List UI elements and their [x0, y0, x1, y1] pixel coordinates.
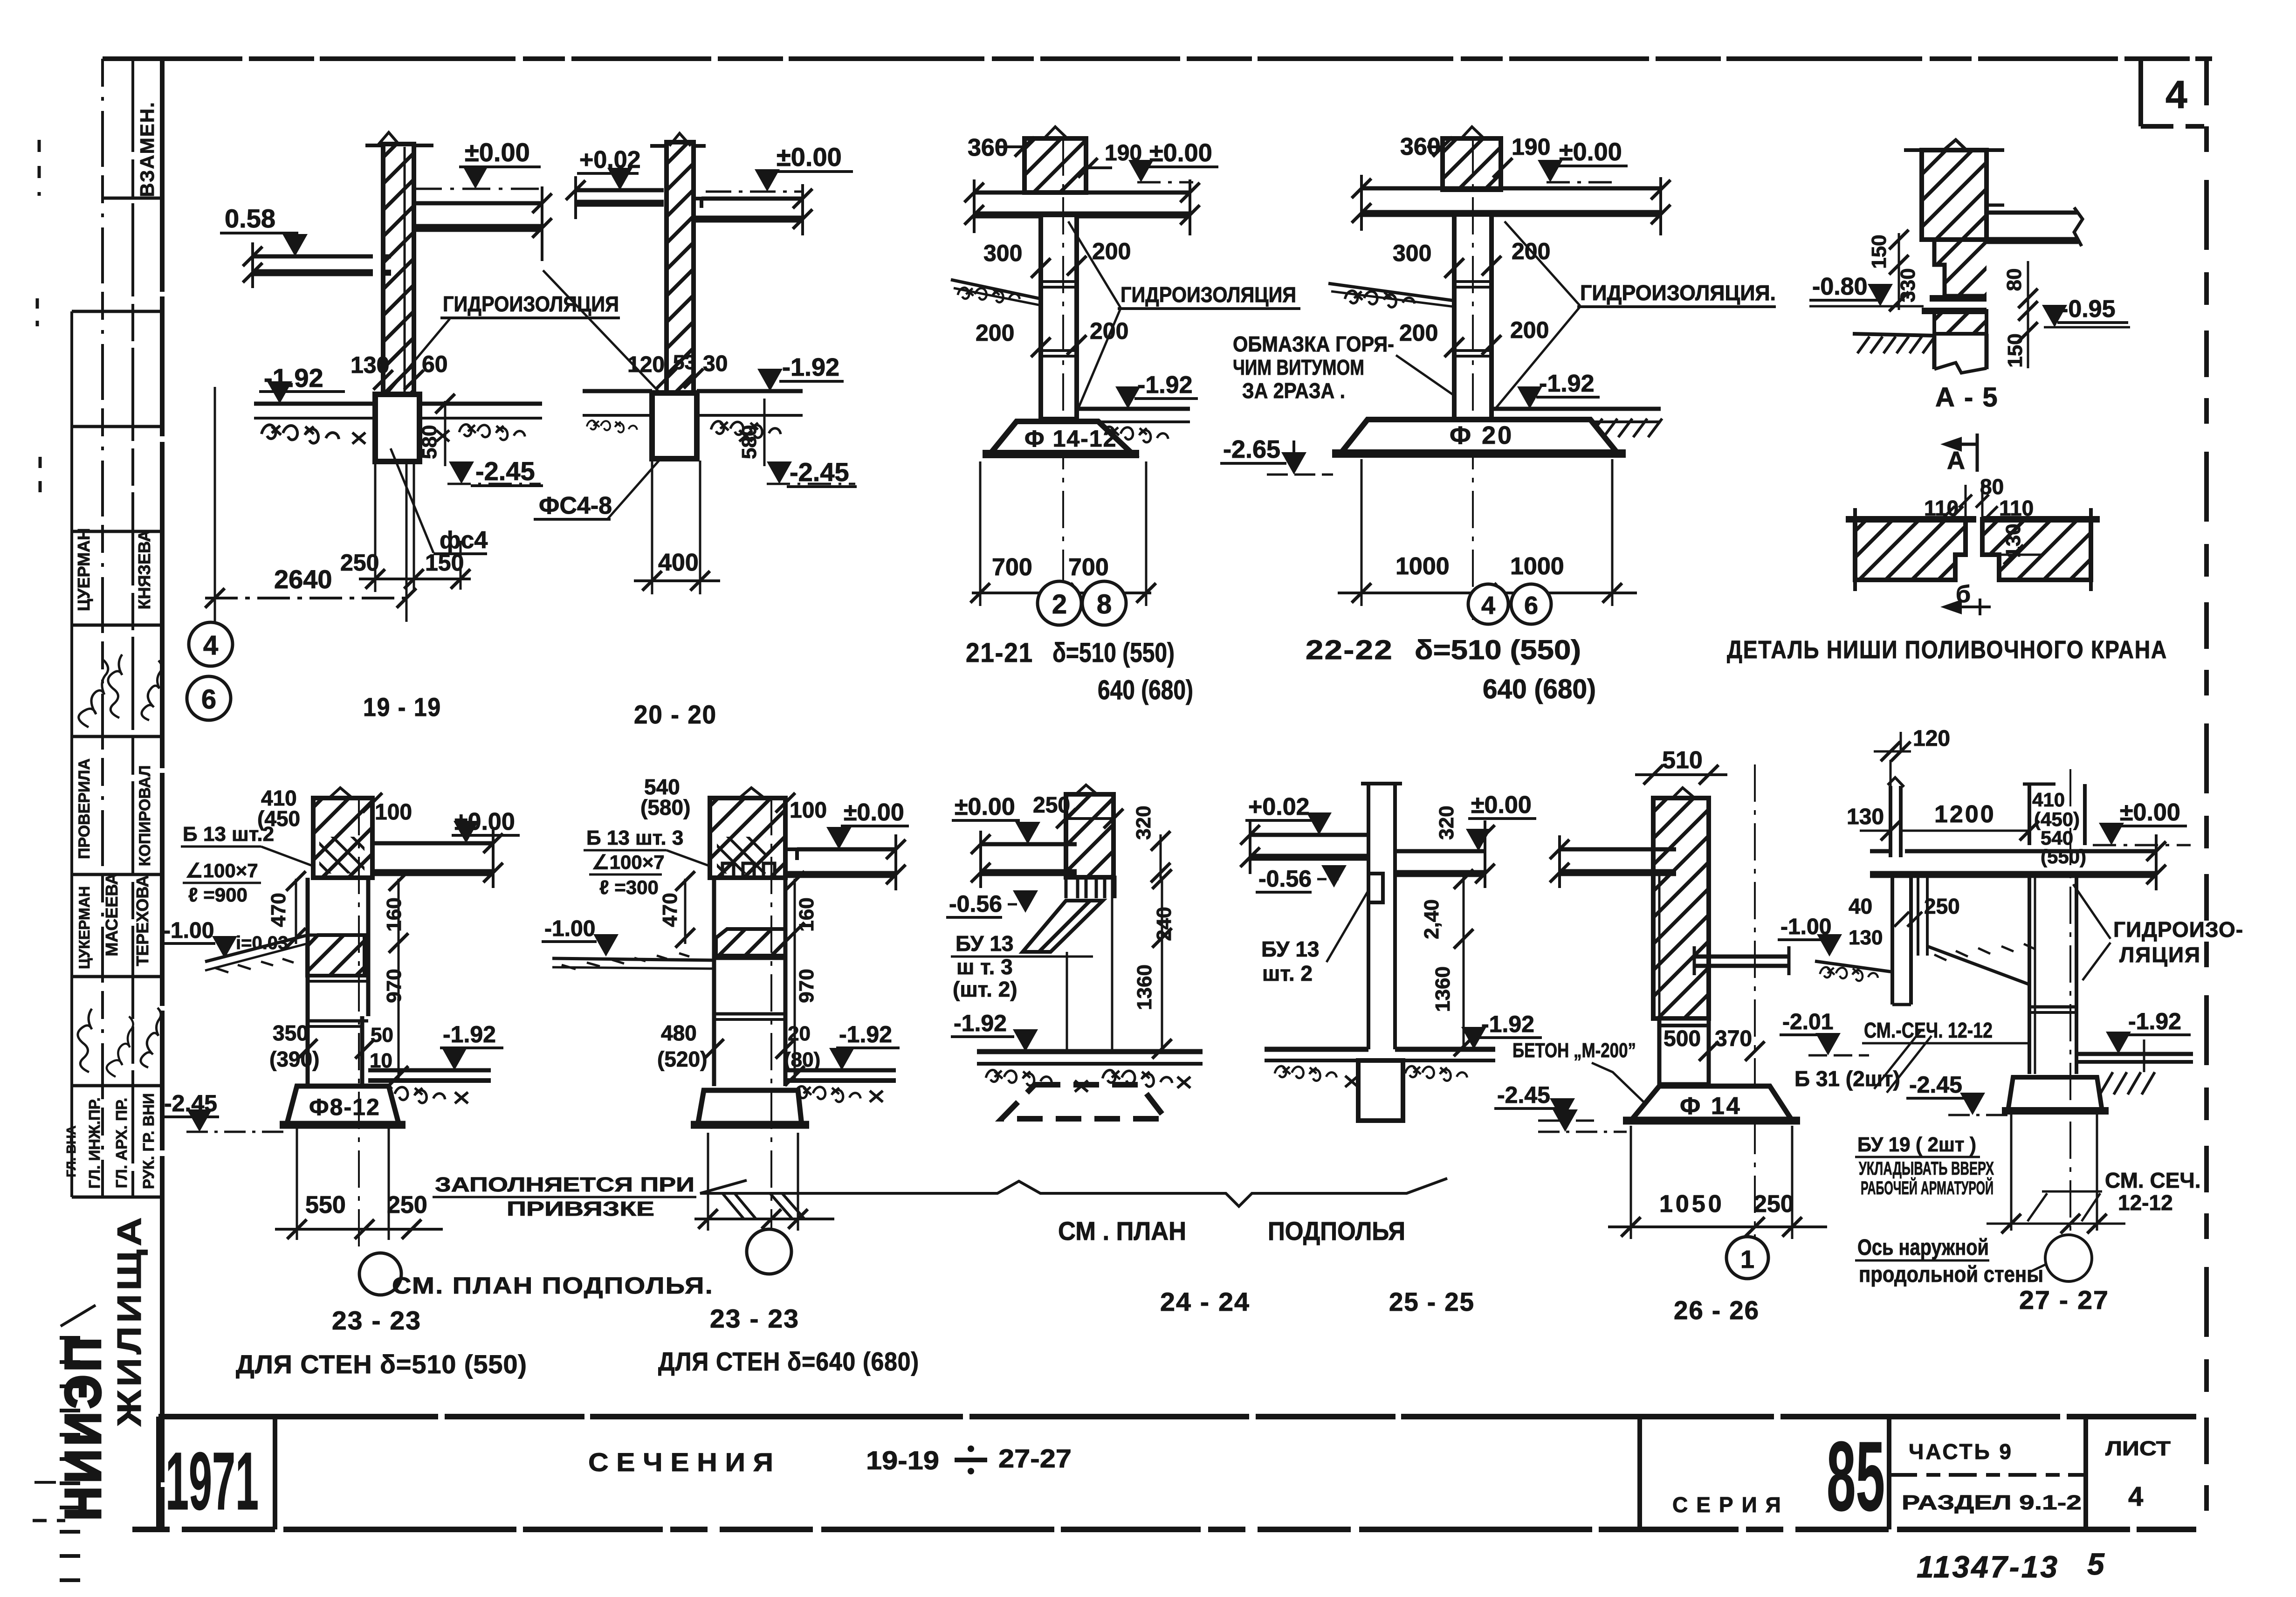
axis circle (27-27): [2045, 1235, 2092, 1281]
svg-text:-1.92: -1.92: [839, 1021, 892, 1047]
title SERIYA box: [1637, 1417, 1642, 1529]
svg-text:470: 470: [267, 893, 290, 927]
svg-text:ФС4-8: ФС4-8: [539, 492, 612, 519]
svg-text:МАСЕЕВА: МАСЕЕВА: [102, 873, 121, 956]
section 20-20 left slab: [576, 188, 664, 193]
right floor 27-27: [2076, 1052, 2193, 1056]
main wall 27-27 above slab: [2028, 784, 2031, 845]
svg-text:60: 60: [422, 351, 448, 377]
svg-text:Б 13 шт. 3: Б 13 шт. 3: [586, 826, 683, 849]
foundation wall 22-22: [1454, 214, 1492, 420]
svg-text:110: 110: [1999, 496, 2034, 520]
axis circle 2: [1038, 581, 1081, 625]
title LIST box: [2083, 1417, 2088, 1529]
svg-text:∠100×7: ∠100×7: [592, 851, 665, 873]
leader FS4-8 to 20-20 footing: [607, 453, 666, 519]
svg-text:-0.56: -0.56: [1258, 866, 1312, 892]
dashed footing 24-24: [1002, 1085, 1166, 1119]
paper edge dashes: [38, 140, 41, 196]
svg-text:ВЗАМЕН.: ВЗАМЕН.: [136, 101, 158, 197]
svg-text:-2.45: -2.45: [1909, 1072, 1962, 1098]
slabs 21-21: [974, 191, 1190, 195]
svg-text:СМ. ПЛАН ПОДПОЛЬЯ.: СМ. ПЛАН ПОДПОЛЬЯ.: [392, 1273, 714, 1299]
svg-text:-1.00: -1.00: [544, 916, 595, 941]
svg-text:50: 50: [371, 1024, 393, 1046]
svg-text:ℓ =300: ℓ =300: [599, 876, 659, 898]
svg-text:640 (680): 640 (680): [1098, 675, 1193, 705]
svg-text:-2.65: -2.65: [1223, 435, 1280, 463]
axis 27-27: [2069, 769, 2071, 1235]
svg-text:1360: 1360: [1133, 964, 1156, 1010]
svg-text:80: 80: [1980, 475, 2004, 499]
svg-text:200: 200: [976, 320, 1014, 346]
svg-text:-1.92: -1.92: [2128, 1008, 2181, 1034]
svg-text:160: 160: [383, 897, 406, 931]
svg-text:580: 580: [418, 425, 441, 459]
svg-text:ЛИСТ: ЛИСТ: [2105, 1437, 2171, 1460]
division sign: [955, 1458, 987, 1462]
axis circle (23a): [359, 1253, 401, 1295]
section 20-20 right slab: [701, 197, 803, 201]
svg-text:19 - 19: 19 - 19: [363, 692, 441, 722]
svg-text:ЦУЕРМАН: ЦУЕРМАН: [74, 528, 93, 611]
svg-text:200: 200: [1510, 317, 1549, 343]
svg-text:1: 1: [1740, 1246, 1754, 1273]
svg-text:21-21: 21-21: [966, 638, 1033, 668]
svg-text:1971: 1971: [165, 1436, 259, 1527]
svg-text:300: 300: [983, 240, 1022, 266]
svg-text:480: 480: [661, 1021, 697, 1045]
svg-text:120: 120: [1913, 726, 1950, 751]
svg-text:А: А: [1947, 447, 1965, 475]
svg-text:-1.92: -1.92: [1137, 372, 1193, 399]
svg-text:250: 250: [1924, 894, 1960, 918]
leader to 19-19 wall base: [387, 319, 450, 394]
svg-text:130: 130: [351, 352, 389, 378]
svg-text:(580): (580): [640, 795, 690, 819]
svg-text:СМ. СЕЧ.: СМ. СЕЧ.: [2105, 1168, 2201, 1192]
svg-text:КОПИРОВАЛ: КОПИРОВАЛ: [136, 765, 154, 866]
svg-text:ЗА 2РАЗА .: ЗА 2РАЗА .: [1242, 379, 1345, 403]
svg-text:ПРОВЕРИЛА: ПРОВЕРИЛА: [76, 758, 93, 859]
sidebar column line C: [131, 59, 134, 1197]
svg-text:4: 4: [2165, 73, 2187, 117]
ground left 22-22: [1328, 283, 1454, 301]
detail A-5 dim verticals: [1898, 233, 1900, 310]
svg-text:δ=510 (550): δ=510 (550): [1052, 638, 1175, 668]
leader beton: [1592, 1063, 1652, 1110]
title CHAST box: [1887, 1417, 1891, 1529]
svg-text:510: 510: [1662, 747, 1703, 774]
svg-text:ПРИВЯЗКЕ: ПРИВЯЗКЕ: [507, 1198, 654, 1220]
svg-text:ЗАПОЛНЯЕТСЯ ПРИ: ЗАПОЛНЯЕТСЯ ПРИ: [435, 1173, 694, 1196]
svg-text:СМ . ПЛАН: СМ . ПЛАН: [1058, 1216, 1186, 1246]
svg-text:2640: 2640: [274, 564, 332, 594]
svg-text:±0.00: ±0.00: [777, 142, 842, 172]
axis 23a: [358, 798, 360, 1252]
foundation block FS4: [375, 394, 419, 461]
svg-text:РУК. ГР. ВНИ: РУК. ГР. ВНИ: [140, 1093, 157, 1189]
axis circle 6 (22-22): [1511, 584, 1551, 624]
svg-text:5: 5: [2087, 1547, 2105, 1581]
piers below slab 27-27: [1890, 878, 1894, 1005]
basement floor 23a: [368, 1068, 491, 1073]
foundation block 20-20: [652, 393, 697, 459]
sheet right border: [2204, 59, 2209, 1529]
svg-text:-1.92: -1.92: [443, 1021, 496, 1047]
svg-text:С Е Ч Е Н И Я: С Е Ч Е Н И Я: [588, 1447, 773, 1477]
footing F8-12: [287, 1086, 399, 1125]
svg-text:40: 40: [1849, 894, 1872, 918]
basement floor 23b: [785, 1068, 896, 1073]
svg-text:(390): (390): [269, 1047, 319, 1071]
ground left 23b: [552, 958, 714, 960]
svg-text:200: 200: [1399, 320, 1438, 346]
svg-text:±0.00: ±0.00: [1559, 138, 1622, 166]
svg-text:23 - 23: 23 - 23: [710, 1304, 799, 1333]
section 22-22 brick wall: [1443, 138, 1501, 190]
axis 23b: [770, 798, 772, 1229]
slab 27-27: [1870, 849, 1890, 854]
axis 22-22: [1472, 138, 1474, 620]
svg-text:ГИДРОИЗО-: ГИДРОИЗО-: [2113, 917, 2243, 942]
leader fs4 to block: [391, 448, 433, 553]
ground 27-27: [1815, 961, 1892, 972]
svg-text:шт. 2: шт. 2: [1262, 961, 1313, 985]
svg-text:РАБОЧЕЙ АРМАТУРОЙ: РАБОЧЕЙ АРМАТУРОЙ: [1861, 1177, 1994, 1198]
svg-text:(80): (80): [784, 1048, 820, 1071]
axis circle (23b): [747, 1229, 791, 1274]
footing block 25-25: [1358, 1060, 1403, 1121]
axis extension line (19-19 left): [214, 387, 216, 622]
svg-text:12-12: 12-12: [2118, 1191, 2173, 1215]
section 26-26 wall: [1653, 798, 1709, 1019]
leader to 20-20 wall base: [543, 270, 661, 394]
svg-text:150: 150: [425, 550, 464, 576]
section 25-25 pier above slab: [1367, 784, 1370, 846]
section 20-20 wall: [667, 142, 694, 393]
main wall 27-27 below slab: [2028, 878, 2031, 1074]
ground left 23a: [205, 935, 308, 962]
axis circle 4 (22-22): [1468, 584, 1508, 624]
foundation wall 23b: [712, 878, 716, 1086]
svg-text:±0.00: ±0.00: [1149, 139, 1212, 167]
sidebar row separators: [103, 197, 162, 200]
sidebar signatures row1: [79, 660, 108, 727]
svg-text:410: 410: [2032, 789, 2065, 811]
section 19-19 left slab: [253, 255, 373, 259]
svg-text:-0.80: -0.80: [1812, 273, 1868, 300]
svg-text:1000: 1000: [1510, 553, 1564, 580]
svg-text:1000: 1000: [1395, 553, 1450, 580]
thin outer pier 27-27: [1889, 786, 1892, 857]
svg-text:±0.00: ±0.00: [2120, 799, 2180, 826]
svg-text:-2.01: -2.01: [1782, 1010, 1833, 1034]
svg-text:БУ 13: БУ 13: [956, 931, 1013, 956]
hatched block 23a: [307, 935, 364, 976]
svg-text:970: 970: [795, 969, 818, 1003]
title block 1971 box: [156, 1417, 161, 1529]
foundation wall 21-21: [1041, 215, 1077, 419]
sidebar column line A: [70, 311, 73, 1197]
svg-text:ДЛЯ СТЕН δ=510 (550): ДЛЯ СТЕН δ=510 (550): [236, 1349, 527, 1379]
notch BU13 (25-25): [1368, 874, 1383, 902]
axis circle 8: [1082, 581, 1126, 625]
svg-text:-1.92: -1.92: [1481, 1011, 1534, 1037]
right floor 22-22: [1492, 407, 1661, 411]
svg-text:Б 13 шт.2: Б 13 шт.2: [183, 823, 274, 846]
left slab 24-24: [981, 842, 1077, 847]
svg-text:Б 31 (2шт): Б 31 (2шт): [1794, 1067, 1900, 1091]
section 20-20 wall top break: [669, 133, 691, 146]
svg-text:(550): (550): [2041, 846, 2086, 867]
svg-text:Ф 20: Ф 20: [1450, 421, 1513, 449]
section 23-23b brick wall: [710, 798, 785, 878]
hatched block 23b: [716, 929, 785, 956]
svg-text:1050: 1050: [1659, 1191, 1725, 1218]
svg-text:26 - 26: 26 - 26: [1674, 1295, 1760, 1325]
niche plan right wall: [1982, 519, 2091, 580]
svg-text:24 - 24: 24 - 24: [1160, 1287, 1250, 1316]
svg-text:700: 700: [992, 554, 1032, 581]
basement floor 24-24: [977, 1049, 1203, 1054]
sidebar column line B: [101, 59, 104, 1197]
svg-text:ДЕТАЛЬ НИШИ ПОЛИВОЧНОГО КРА: ДЕТАЛЬ НИШИ ПОЛИВОЧНОГО КРАНА: [1727, 636, 2167, 664]
svg-text:ГЛ. ВНА: ГЛ. ВНА: [64, 1125, 78, 1177]
svg-text:370: 370: [1715, 1026, 1752, 1051]
svg-text:-2.45: -2.45: [1497, 1082, 1550, 1108]
leader BU13 to band: [951, 956, 1093, 958]
svg-text:-0.56: -0.56: [949, 891, 1002, 917]
svg-text:-1.92: -1.92: [782, 353, 839, 381]
svg-text:РАЗДЕЛ 9.1-2: РАЗДЕЛ 9.1-2: [1902, 1491, 2082, 1514]
svg-text:0.58: 0.58: [225, 204, 275, 233]
svg-text:ш т. 3: ш т. 3: [956, 955, 1013, 979]
detail A-5 hatched strip: [1934, 311, 1987, 334]
svg-text:ТЕРЕХОВА: ТЕРЕХОВА: [133, 875, 152, 966]
svg-text:БЕТОН „М-200”: БЕТОН „М-200”: [1512, 1039, 1636, 1062]
svg-text:ЧИМ ВИТУМОМ: ЧИМ ВИТУМОМ: [1233, 355, 1364, 379]
svg-text:±0.00: ±0.00: [955, 793, 1015, 820]
svg-text:i=0.03: i=0.03: [236, 933, 288, 953]
svg-text:Ф8-12: Ф8-12: [309, 1094, 380, 1120]
svg-text:330: 330: [1897, 268, 1919, 302]
svg-text:640 (680): 640 (680): [1483, 674, 1596, 704]
svg-text:ГИДРОИЗОЛЯЦИЯ: ГИДРОИЗОЛЯЦИЯ: [1121, 282, 1296, 307]
svg-text:22-22: 22-22: [1306, 635, 1393, 665]
svg-text:400: 400: [658, 549, 699, 576]
leader obmazka: [1396, 355, 1455, 396]
svg-text:550: 550: [305, 1191, 346, 1218]
footing 23b: [698, 1090, 802, 1125]
svg-text:100: 100: [375, 800, 412, 825]
svg-text:19-19: 19-19: [866, 1446, 939, 1475]
title block top line: [158, 1414, 2196, 1419]
footing F20: [1340, 420, 1618, 454]
svg-text:-1.92: -1.92: [954, 1010, 1007, 1036]
level 0.00 (20-20): [706, 191, 803, 193]
svg-text:±0.00: ±0.00: [844, 799, 904, 826]
svg-text:-1.92: -1.92: [1539, 370, 1595, 397]
svg-text:А - 5: А - 5: [1935, 382, 1999, 413]
pier below slab 25-25: [1367, 846, 1370, 874]
svg-text:(шт. 2): (шт. 2): [953, 977, 1017, 1001]
svg-text:ℓ =900: ℓ =900: [188, 884, 247, 906]
svg-text:500: 500: [1664, 1026, 1701, 1051]
ground left 21-21: [951, 280, 1041, 299]
axis 21-21: [1062, 138, 1064, 620]
level -2.45 mark (26-26): [1553, 1109, 1578, 1132]
footing F14-12: [990, 421, 1133, 454]
detail A-5 shelf lines: [1930, 295, 1987, 302]
svg-text:продольной стены: продольной стены: [1859, 1262, 2043, 1287]
ground texture 19-19: [261, 425, 339, 443]
basement floor 19-19: [254, 402, 375, 406]
svg-text:150: 150: [2004, 333, 2027, 367]
svg-text:470: 470: [659, 893, 681, 927]
right slab 23b: [797, 847, 896, 852]
svg-text:700: 700: [1068, 554, 1109, 581]
svg-text:БУ 13: БУ 13: [1261, 937, 1319, 961]
svg-text:4: 4: [2128, 1481, 2143, 1512]
detail A-5 wall upper: [1922, 150, 1987, 240]
svg-text:(520): (520): [657, 1047, 707, 1071]
section 19-19 wall top break: [378, 132, 400, 145]
svg-text:250: 250: [1753, 1191, 1794, 1218]
sidebar hatch dashes: [60, 1336, 80, 1340]
svg-text:ДЛЯ СТЕН δ=640 (680): ДЛЯ СТЕН δ=640 (680): [658, 1347, 919, 1376]
svg-text:11347-13: 11347-13: [1917, 1549, 2059, 1584]
svg-text:200: 200: [1090, 318, 1128, 344]
projection lines 24-24: [1066, 952, 1068, 1052]
svg-text:Ф 14-12: Ф 14-12: [1024, 426, 1117, 452]
footing F14: [1631, 1086, 1792, 1121]
detail A-5 niche lower hatch: [1934, 240, 1987, 296]
anchor teeth 23b: [722, 863, 775, 876]
svg-text:250: 250: [340, 550, 379, 576]
svg-text:320: 320: [1132, 805, 1155, 840]
left slab 25-25: [1250, 833, 1368, 837]
svg-text:ГИДРОИЗОЛЯЦИЯ.: ГИДРОИЗОЛЯЦИЯ.: [1580, 281, 1776, 305]
leader BU13 (25-25): [1327, 890, 1368, 962]
ground hatch right 27-27: [2100, 1072, 2113, 1094]
niche plan left wall: [1855, 519, 1966, 580]
svg-text:130: 130: [1849, 926, 1883, 949]
svg-text:25 - 25: 25 - 25: [1389, 1287, 1475, 1316]
detail A-5 right slab: [1987, 211, 2078, 215]
sheet left border: [160, 59, 165, 1529]
svg-text:Ф 14: Ф 14: [1680, 1093, 1742, 1120]
svg-text:130: 130: [1847, 805, 1884, 829]
svg-text:±0.00: ±0.00: [1471, 792, 1532, 819]
svg-text:КНЯЗЕВА: КНЯЗЕВА: [135, 530, 154, 610]
svg-text:-2.45: -2.45: [475, 456, 535, 486]
svg-text:320: 320: [1435, 805, 1458, 840]
right floor 21-21: [1077, 407, 1190, 411]
section 23-23a brick wall: [313, 798, 372, 878]
svg-text:СЕРИЯ: СЕРИЯ: [1672, 1493, 1789, 1517]
svg-text:150: 150: [1868, 234, 1890, 268]
ground texture 20-20: [587, 420, 637, 433]
svg-text:4: 4: [1481, 592, 1495, 620]
detail A-5 wall below: [1932, 334, 1937, 369]
left slab 26-26: [1560, 847, 1676, 852]
basement floor 25-25: [1265, 1047, 1368, 1052]
svg-text:-0.95: -0.95: [2060, 296, 2116, 323]
sheet top border: [103, 56, 2212, 61]
svg-text:-1.00: -1.00: [163, 918, 214, 943]
svg-text:8: 8: [1097, 589, 1112, 620]
svg-text:27-27: 27-27: [998, 1444, 1072, 1473]
foundation wall 23a: [306, 878, 310, 1086]
right slab 25-25: [1395, 849, 1485, 854]
svg-text:ЦУКЕРМАН: ЦУКЕРМАН: [76, 886, 93, 969]
title block bottom line: [132, 1527, 2196, 1532]
ground hatch right 22-22: [1588, 419, 1602, 437]
svg-text:4: 4: [203, 630, 218, 661]
svg-text:ЖИЛИЩА: ЖИЛИЩА: [111, 1214, 148, 1427]
svg-text:ЧАСТЬ 9: ЧАСТЬ 9: [1909, 1439, 2013, 1464]
svg-text:6: 6: [201, 684, 216, 715]
axis 26-26: [1754, 764, 1756, 1238]
detail A-5 niche steps: [1922, 240, 1987, 296]
section 19-19 right slab: [414, 201, 542, 206]
section 19-19 wall: [383, 144, 414, 394]
projection verticals 27-27: [2010, 1114, 2013, 1231]
svg-text:БУ 19 ( 2шт ): БУ 19 ( 2шт ): [1857, 1133, 1976, 1156]
lower block 26-26: [1659, 1019, 1709, 1084]
svg-text:20 - 20: 20 - 20: [634, 700, 717, 729]
svg-text:δ=510 (550): δ=510 (550): [1415, 635, 1581, 665]
svg-text:1200: 1200: [1934, 801, 1996, 828]
slabs 22-22: [1361, 186, 1661, 191]
footing 27-27: [2008, 1077, 2102, 1111]
see-plan bracket line: [700, 1178, 1447, 1206]
section 21-21 brick wall: [1024, 138, 1086, 193]
svg-text:80: 80: [2003, 268, 2026, 291]
svg-text:190: 190: [1512, 134, 1550, 160]
svg-text:23 - 23: 23 - 23: [332, 1306, 421, 1335]
svg-text:250: 250: [387, 1191, 427, 1218]
section 24-24 wall: [1066, 794, 1114, 877]
svg-text:±0.00: ±0.00: [465, 138, 530, 167]
svg-text:350: 350: [273, 1021, 309, 1045]
sheet number box: [2138, 61, 2143, 126]
svg-text:1360: 1360: [1431, 966, 1454, 1012]
diagonal wall band 24-24: [1023, 901, 1103, 952]
svg-text:+0.02: +0.02: [1248, 793, 1310, 820]
svg-text:2,40: 2,40: [1420, 899, 1443, 939]
infill sketch below footing 23b: [694, 1218, 834, 1220]
svg-text:ГИДРОИЗОЛЯЦИЯ: ГИДРОИЗОЛЯЦИЯ: [443, 292, 619, 316]
svg-text:∠100×7: ∠100×7: [186, 860, 258, 881]
detail A-5 ground: [1853, 334, 1934, 336]
svg-text:300: 300: [1393, 240, 1431, 266]
svg-text:ПОДПОЛЬЯ: ПОДПОЛЬЯ: [1268, 1216, 1405, 1246]
svg-text:580: 580: [738, 425, 761, 459]
right slab 23a: [372, 841, 493, 846]
svg-text:ЛЯЦИЯ: ЛЯЦИЯ: [2119, 943, 2201, 967]
sidebar signatures row2: [78, 1009, 92, 1072]
svg-text:6: 6: [1524, 592, 1538, 620]
vent beams B U13 (24-24): [1066, 877, 1115, 898]
crossing beam 26-26: [1694, 955, 1789, 959]
svg-text:100: 100: [790, 798, 827, 823]
svg-text:ГЛ. ИНЖ.ПР.: ГЛ. ИНЖ.ПР.: [86, 1097, 103, 1189]
svg-text:-2.45: -2.45: [790, 457, 849, 487]
svg-text:970: 970: [383, 969, 406, 1003]
svg-text:85: 85: [1827, 1421, 1885, 1531]
